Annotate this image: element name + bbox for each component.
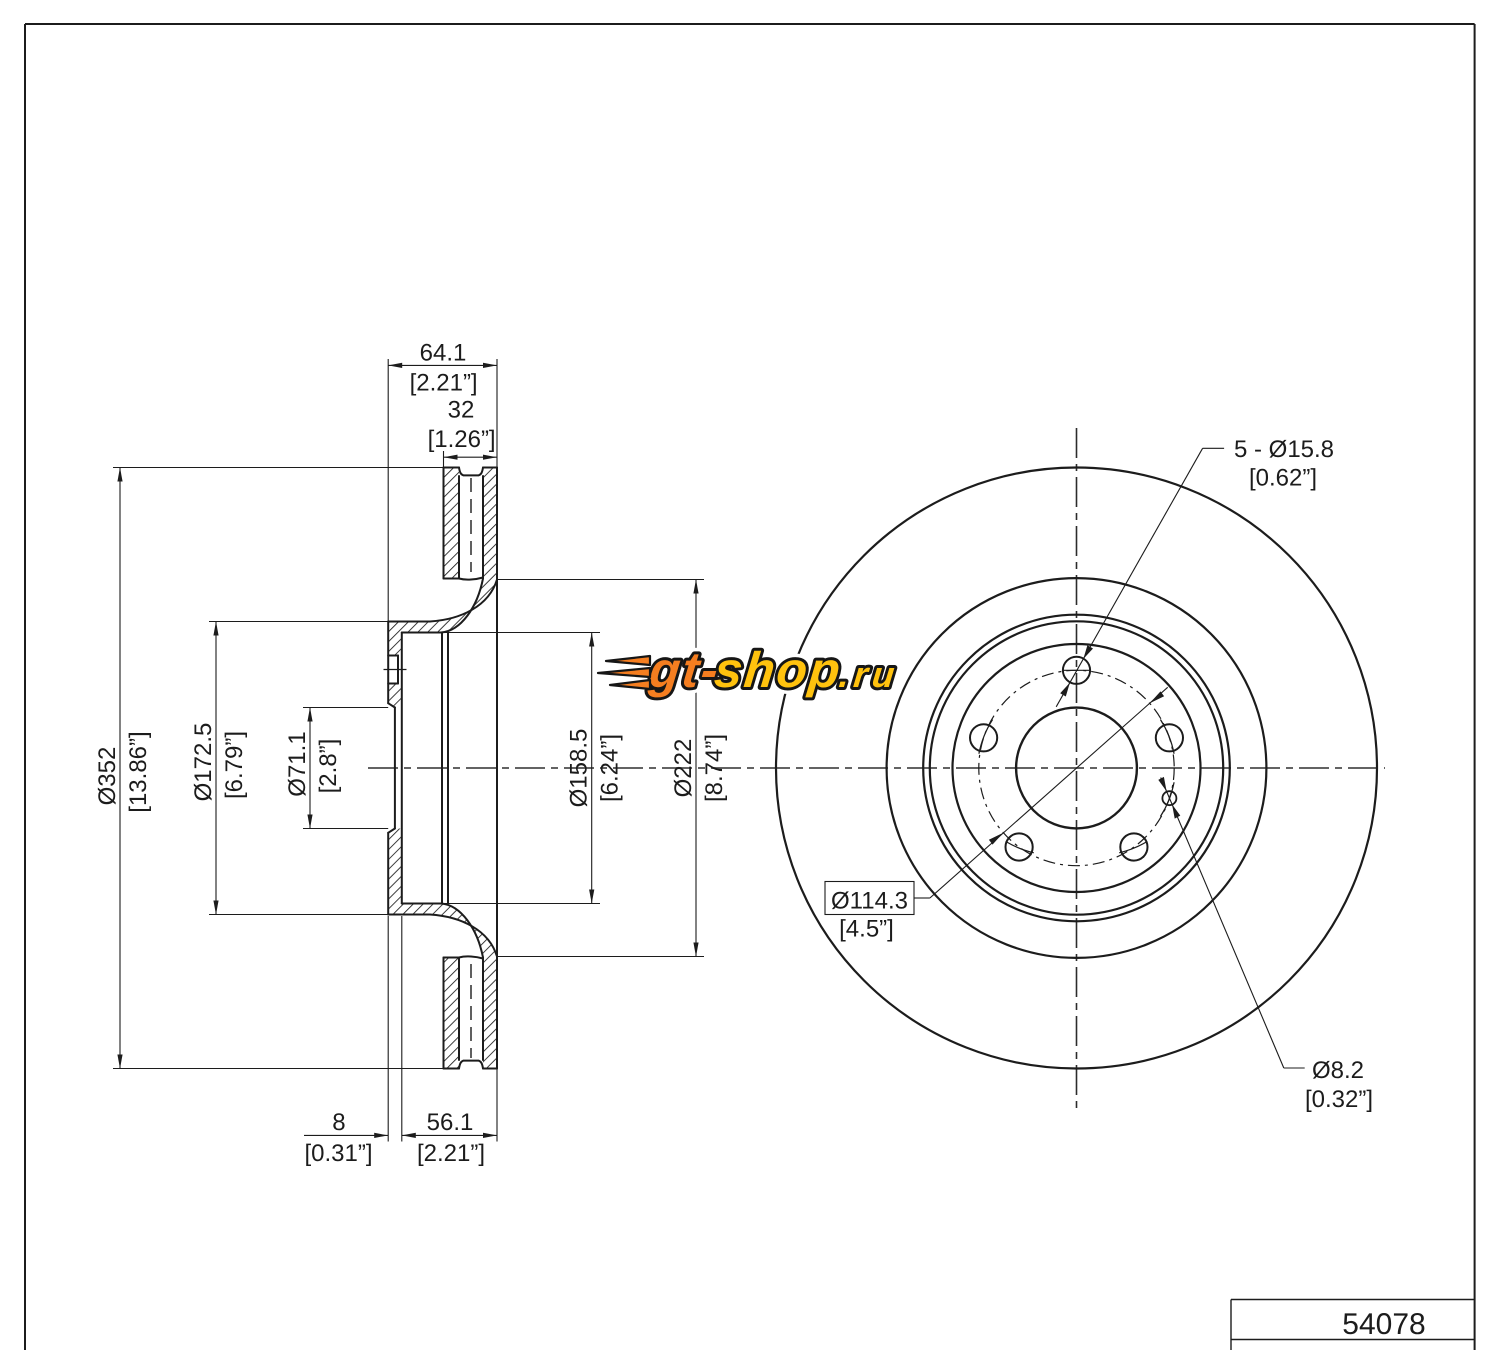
title block [1231,1300,1475,1350]
bore chamfer top [388,703,395,707]
bore chamfer bottom [388,829,395,833]
svg-text:64.1: 64.1 [420,340,467,367]
svg-text:[0.62”]: [0.62”] [1249,465,1317,492]
outer circle Dia352 [776,468,1377,1069]
top face right segment [483,467,497,469]
gt-shop.ru watermark logo [646,642,898,698]
hatch fill: top left friction plate [444,468,460,579]
hub recess circle [953,644,1201,892]
svg-text:5 - Ø15.8: 5 - Ø15.8 [1234,436,1334,463]
ext Dia222 bottom [497,956,704,958]
svg-text:56.1: 56.1 [427,1109,474,1136]
ext Dia71.1 bottom [303,828,388,830]
svg-text:Ø352: Ø352 [94,747,121,806]
flange left face upper [387,622,389,704]
leader Dia8.2 [1161,778,1305,1069]
dimension 8 [304,1134,388,1136]
bolt hole lower-right [1120,833,1147,860]
bolt hole upper-left [970,724,997,751]
BCD solid arcs through holes [979,670,1174,853]
svg-text:Ø158.5: Ø158.5 [566,729,593,808]
svg-text:[6.79”]: [6.79”] [221,731,248,799]
vent groove top [459,468,483,476]
center bore Dia71.1 [1016,708,1137,829]
svg-text:[1.26”]: [1.26”] [428,426,496,453]
bolt hole upper edge [388,655,398,657]
flange left face lower [387,833,389,915]
svg-text:[0.31”]: [0.31”] [304,1140,372,1167]
dimension Dia172.5 [215,622,217,915]
bolt hole top [1063,657,1090,684]
logo speed lines [598,656,650,689]
svg-text:Ø8.2: Ø8.2 [1312,1057,1364,1084]
bolt hole far wall [397,656,399,684]
web bottom curve [402,579,483,633]
flange right face [401,633,403,904]
leader Dia114.3 [825,687,1168,914]
ext Dia172.5 bottom [209,914,388,916]
svg-text:54078: 54078 [1342,1308,1425,1341]
vent bottom edge [459,578,483,580]
hatch fill: flange piece between bolt hole and bore [388,684,402,708]
bolt hole lower-left [1006,833,1033,860]
hat outer step circle [923,615,1230,922]
hat face circle [930,621,1223,914]
left plate inner wall [458,476,460,579]
hatch fill: top right plate + web + upper flange [388,468,497,656]
right plate inner wall [482,476,484,579]
ext 64.1/32 right [496,359,498,468]
svg-text:[2.8”]: [2.8”] [315,739,342,794]
left plate bottom [444,578,460,580]
bottom plates [444,957,460,959]
svg-text:[4.5”]: [4.5”] [839,916,894,943]
ext Dia172.5 top [209,621,388,623]
ext 32 left [443,451,445,468]
bolt hole lower edge [388,683,398,685]
bore wall [394,708,396,829]
svg-text:Ø222: Ø222 [670,739,697,798]
ext Dia352 bottom [113,1068,444,1070]
hatch fill: bottom right plate + web + lower flange [388,829,497,1069]
dimension Dia71.1 [309,708,311,829]
set screw hole Dia8.2 [1162,791,1176,805]
thin extension lines [113,359,704,1142]
ext 8 left [387,916,389,1142]
dimension Dia158.5 [591,633,593,904]
web top mirror curve [402,904,483,958]
svg-text:[6.24”]: [6.24”] [597,734,624,802]
horizontal centerline [368,767,1385,769]
svg-text:[8.74”]: [8.74”] [701,734,728,802]
flange bolt hole axis tick [384,669,407,671]
top face left segment [444,467,460,469]
web top curve + flange top [388,580,497,622]
ext 8/56.1 mid [401,916,403,1142]
svg-text:[13.86”]: [13.86”] [125,731,152,812]
svg-text:8: 8 [332,1109,345,1136]
svg-text:[2.21”]: [2.21”] [410,370,478,397]
dimension 64.1 [388,364,497,366]
dimension Dia222 [695,580,697,957]
vertical centerline [1076,428,1078,1110]
svg-text:[2.21”]: [2.21”] [417,1140,485,1167]
ext Dia71.1 top [303,707,388,709]
dimension 32 [444,456,498,458]
svg-text:[0.32”]: [0.32”] [1305,1086,1373,1113]
left outer face [443,468,445,579]
ext 56.1 right [496,1069,498,1142]
ext Dia158.5 bottom [442,903,600,905]
svg-text:32: 32 [448,397,475,424]
dimension 56.1 [402,1134,497,1136]
bolt hole upper-right [1156,724,1183,751]
vent channel dashed centerline bottom [470,964,472,1058]
svg-text:Ø71.1: Ø71.1 [284,731,311,796]
web bottom mirror curve + flange bottom [388,915,497,957]
ext 64.1 left [387,359,389,622]
leader 5-Dia15.8 [1056,448,1224,707]
rotor outline: top plates [388,468,497,1069]
dimension Dia352 [119,468,121,1069]
bolt circle BCD dashed [979,670,1174,865]
friction band inner circle [887,578,1267,958]
hat interior walls [441,633,443,904]
ext Dia352 top [113,467,444,469]
vent channel dashed centerline top [470,478,472,572]
svg-text:Ø172.5: Ø172.5 [190,723,217,802]
hatch fill: bottom left friction plate [444,958,460,1069]
ext Dia222 top [497,579,704,581]
ext Dia158.5 top [442,632,600,634]
right outer face / hat cylinder [496,468,498,1069]
svg-text:Ø114.3: Ø114.3 [831,888,908,915]
